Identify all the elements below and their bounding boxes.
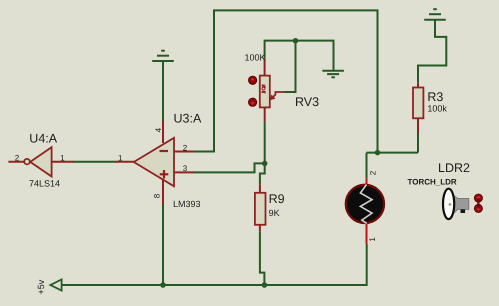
svg-text:100k: 100k: [427, 104, 447, 114]
svg-text:U4:A: U4:A: [29, 132, 57, 146]
svg-text:100K: 100K: [245, 53, 266, 63]
svg-text:9K: 9K: [269, 208, 280, 218]
svg-text:74LS14: 74LS14: [29, 179, 60, 189]
svg-text:2: 2: [183, 144, 188, 153]
svg-text:+5v: +5v: [36, 279, 46, 294]
svg-text:LDR2: LDR2: [438, 161, 470, 175]
svg-text:R9: R9: [269, 192, 285, 206]
svg-text:1: 1: [368, 237, 377, 242]
svg-text:3: 3: [183, 164, 188, 173]
svg-text:4: 4: [154, 127, 163, 132]
svg-text:U3:A: U3:A: [174, 112, 202, 126]
svg-text:8: 8: [152, 193, 161, 198]
svg-text:1: 1: [118, 153, 123, 162]
svg-text:R3: R3: [427, 90, 443, 104]
svg-text:2: 2: [15, 153, 20, 162]
svg-text:TORCH_LDR: TORCH_LDR: [408, 177, 457, 186]
svg-text:RV3: RV3: [295, 95, 319, 109]
svg-text:2: 2: [369, 170, 378, 175]
svg-text:LM393: LM393: [173, 199, 201, 209]
svg-text:1: 1: [60, 153, 65, 162]
